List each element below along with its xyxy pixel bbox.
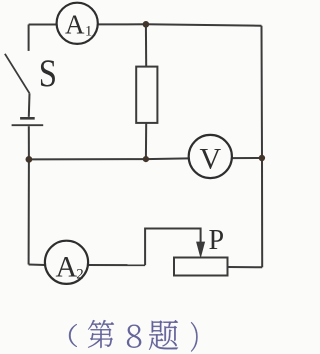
rheostat body P	[174, 258, 228, 276]
svg-text:1: 1	[85, 23, 92, 39]
battery long plate	[12, 124, 44, 126]
switch S blade	[5, 54, 30, 94]
node resistor bottom	[143, 156, 149, 162]
node V right	[259, 155, 265, 161]
resistor R	[136, 67, 157, 123]
wire A2 to wiper riser	[88, 264, 145, 266]
wire resistor branch bottom	[145, 123, 147, 159]
wire V row right	[232, 157, 262, 159]
svg-text:P: P	[209, 225, 225, 256]
wire battery to left node to bottom-left corner	[28, 126, 30, 264]
caption (第 8 题)	[69, 320, 198, 352]
wire resistor branch top	[145, 24, 147, 66]
wire V row left	[29, 158, 189, 159]
wiper arrow	[197, 242, 205, 257]
wire A1 to top node to top-right corner	[98, 24, 262, 25]
wire switch to battery	[28, 93, 31, 117]
svg-text:V: V	[200, 143, 222, 176]
node top (resistor/top wire)	[143, 21, 150, 28]
voltmeter V	[189, 135, 232, 178]
wire bottom-left corner to A2	[29, 264, 45, 267]
svg-text:S: S	[39, 51, 57, 94]
wire wiper step	[145, 229, 201, 266]
ammeter A2	[45, 241, 88, 284]
svg-text:A: A	[56, 251, 78, 284]
wire bottom-right to rheostat	[228, 266, 263, 268]
wire left rail top to switch	[28, 25, 30, 51]
svg-text:A: A	[65, 10, 85, 40]
node left (battery/V row)	[26, 156, 33, 163]
svg-text:2: 2	[76, 267, 84, 283]
wire right rail	[261, 26, 264, 268]
battery short plate	[20, 117, 35, 120]
wire top-left to A1	[29, 24, 57, 26]
ammeter A1	[57, 3, 98, 44]
